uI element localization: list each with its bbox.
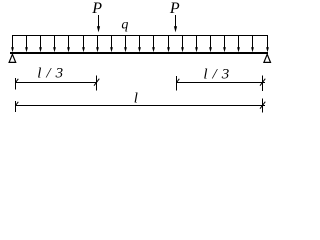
svg-text:P: P <box>169 0 180 17</box>
svg-text:l/3: l/3 <box>37 65 68 81</box>
svg-text:P: P <box>91 0 102 17</box>
svg-text:l/3: l/3 <box>203 66 234 82</box>
svg-text:q: q <box>121 17 128 32</box>
svg-text:l: l <box>134 90 138 106</box>
